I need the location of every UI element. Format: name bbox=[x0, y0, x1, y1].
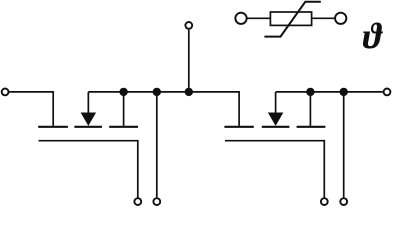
terminal pin Q2 gate bbox=[321, 198, 328, 205]
transistor Q1 bulk bar bbox=[74, 126, 102, 128]
wire bus to bottom terminal A bbox=[156, 92, 158, 197]
wire top terminal lead bbox=[188, 30, 190, 92]
thermistor R1 right terminal bbox=[335, 13, 346, 24]
wire Q2 bulk bbox=[275, 92, 277, 113]
transistor Q1 gate electrode and lead bbox=[39, 141, 138, 198]
junction dot top lead bbox=[185, 88, 193, 96]
junction dot Q1 source bbox=[119, 88, 127, 96]
thermistor R1 body bbox=[270, 12, 311, 25]
transistor Q2 bulk arrowhead bbox=[268, 113, 284, 126]
terminal pin B bbox=[340, 198, 347, 205]
wire source bus right net bbox=[276, 91, 383, 93]
junction dot bottom lead B bbox=[340, 88, 348, 96]
wire Q2 source stub bbox=[309, 92, 311, 126]
svg-text:ϑ: ϑ bbox=[363, 16, 384, 56]
wire left terminal to Q1 drain bbox=[9, 92, 54, 126]
wire source bus left net bbox=[88, 92, 239, 126]
transistor Q1 drain bar bbox=[38, 126, 68, 128]
terminal pin left bbox=[2, 89, 9, 96]
wire R1 left lead bbox=[247, 17, 270, 19]
transistor Q2 source bar bbox=[297, 126, 326, 128]
transistor Q2 gate electrode and lead bbox=[225, 141, 324, 198]
wire R1 right lead bbox=[312, 17, 334, 19]
thermistor R1 variability slash bbox=[264, 2, 320, 37]
label theta bbox=[363, 16, 384, 56]
transistor Q2 bulk bar bbox=[262, 126, 290, 128]
terminal pin top bbox=[185, 22, 192, 29]
thermistor R1 left terminal bbox=[235, 13, 246, 24]
wire Q1 bulk bbox=[87, 92, 89, 113]
terminal pin right bbox=[384, 89, 391, 96]
wire bus to bottom terminal B bbox=[343, 92, 345, 197]
transistor Q1 source bar bbox=[109, 126, 138, 128]
transistor Q1 bulk arrowhead bbox=[81, 113, 97, 126]
transistor Q2 drain bar bbox=[224, 126, 253, 128]
terminal pin Q1 gate bbox=[134, 198, 141, 205]
wire Q1 source stub bbox=[123, 92, 125, 126]
terminal pin A bbox=[153, 198, 160, 205]
junction dot bottom lead A bbox=[153, 88, 161, 96]
junction dot Q2 source bbox=[306, 88, 314, 96]
